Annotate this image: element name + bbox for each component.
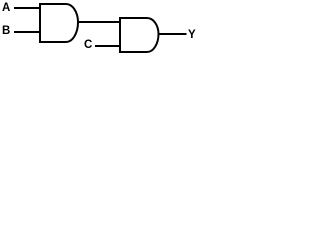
wire U2 output to Y xyxy=(159,33,187,35)
svg-text:C: C xyxy=(84,39,92,51)
wire U1 output to U2 input xyxy=(78,21,120,23)
svg-text:A: A xyxy=(2,2,10,14)
AND gate U1 xyxy=(40,4,78,42)
wire B to U1 xyxy=(14,31,40,33)
AND gate U2 xyxy=(120,18,159,52)
svg-text:Y: Y xyxy=(188,29,196,41)
wire A to U1 xyxy=(14,7,40,9)
svg-text:B: B xyxy=(2,25,10,37)
wire C to U2 xyxy=(95,45,120,47)
